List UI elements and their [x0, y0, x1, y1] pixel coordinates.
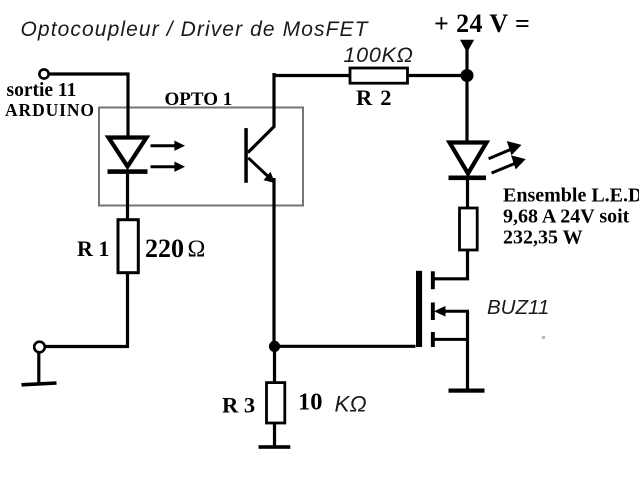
svg-text:KΩ: KΩ	[335, 392, 367, 417]
svg-text:232,35 W: 232,35 W	[503, 227, 583, 249]
svg-text:ARDUINO: ARDUINO	[5, 100, 95, 120]
svg-text:BUZ11: BUZ11	[487, 296, 549, 319]
svg-text:OPTO 1: OPTO 1	[165, 89, 233, 110]
svg-text:220: 220	[145, 234, 184, 263]
svg-text:Ω: Ω	[188, 237, 206, 263]
svg-text:Ensemble L.E.D: Ensemble L.E.D	[503, 185, 639, 207]
svg-text:R 2: R 2	[356, 85, 393, 110]
svg-text:Optocoupleur / Driver de MosFE: Optocoupleur / Driver de MosFET	[21, 18, 370, 41]
svg-text:10: 10	[298, 389, 323, 416]
svg-text:100KΩ: 100KΩ	[344, 43, 414, 67]
svg-text:9,68 A 24V soit: 9,68 A 24V soit	[503, 206, 630, 228]
svg-text:+ 24 V =: + 24 V =	[434, 9, 530, 38]
svg-text:R 3: R 3	[222, 393, 255, 418]
svg-text:R 1: R 1	[77, 236, 109, 261]
svg-text:sortie 11: sortie 11	[7, 80, 77, 101]
